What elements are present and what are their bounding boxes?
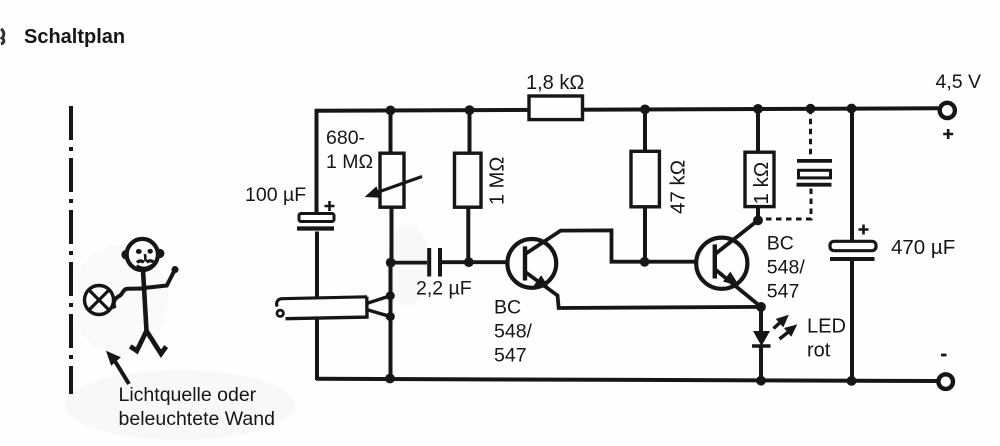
svg-text:BC: BC xyxy=(494,297,521,319)
svg-text:BC: BC xyxy=(767,233,794,255)
svg-text:1 MΩ: 1 MΩ xyxy=(326,151,373,173)
svg-text:1 MΩ: 1 MΩ xyxy=(487,157,509,205)
svg-text:4,5 V: 4,5 V xyxy=(936,71,982,93)
svg-text:470 µF: 470 µF xyxy=(891,236,955,259)
svg-text:100 µF: 100 µF xyxy=(245,184,306,206)
svg-text:548/: 548/ xyxy=(494,321,533,343)
svg-text:Schaltplan: Schaltplan xyxy=(24,26,125,48)
svg-text:680-: 680- xyxy=(326,127,365,149)
svg-text:2,2 µF: 2,2 µF xyxy=(416,278,472,300)
svg-text:beleuchtete Wand: beleuchtete Wand xyxy=(119,408,275,430)
svg-text:47 kΩ: 47 kΩ xyxy=(667,160,690,214)
svg-text:547: 547 xyxy=(494,345,527,367)
svg-text:Lichtquelle oder: Lichtquelle oder xyxy=(119,384,257,406)
svg-text:547: 547 xyxy=(767,281,800,303)
svg-text:rot: rot xyxy=(807,340,831,362)
svg-text:LED: LED xyxy=(807,316,846,338)
svg-text:1 kΩ: 1 kΩ xyxy=(750,162,773,205)
svg-text:1,8 kΩ: 1,8 kΩ xyxy=(526,72,584,94)
svg-text:548/: 548/ xyxy=(767,257,806,279)
